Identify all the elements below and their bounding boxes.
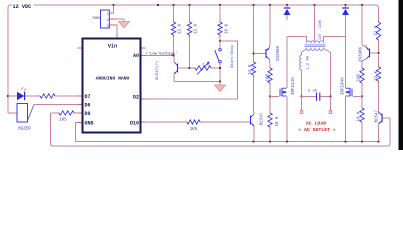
resistor R3 12K pullup at A0 [173, 5, 175, 20]
wire Q1 base to preset [178, 67, 190, 69]
svg-text:12 K: 12 K [249, 64, 253, 75]
wire Q2 emitter to +12V rail [269, 45, 271, 48]
svg-text:D2: D2 [133, 94, 139, 100]
transistor Q2 2N3906 PNP [265, 49, 267, 58]
wire 7805 pin2 to ground [109, 18, 117, 20]
wire D9 to resistor R2 [78, 112, 82, 114]
wire R10 to gate node [361, 85, 363, 97]
node Q4 base junction [377, 52, 379, 54]
svg-text:2 uF: 2 uF [308, 89, 318, 93]
wire LED cathode to resistor [25, 95, 38, 97]
svg-text:12 K: 12 K [375, 25, 379, 36]
wire A0 to sense node [142, 55, 146, 57]
wire outlet terminals [301, 97, 303, 111]
diode D3 flyback right [345, 5, 347, 8]
wire 12K top to base node [253, 54, 255, 61]
svg-text:BUZER: BUZER [18, 128, 31, 132]
wire 7805 pin1 to +12V rail [109, 12, 113, 14]
svg-text:IRFZ44N: IRFZ44N [341, 77, 345, 95]
svg-text:Start/Stop: Start/Stop [230, 44, 235, 68]
black side bar [399, 0, 403, 150]
transformer TR1 primary leads [287, 37, 307, 42]
svg-text:D6: D6 [85, 102, 91, 108]
svg-text:2N3906: 2N3906 [277, 45, 281, 61]
svg-text:12 K: 12 K [195, 23, 199, 34]
svg-text:1 K: 1 K [202, 63, 210, 67]
wire M2 source to ground rail [345, 97, 347, 142]
MOSFET M2 IRFZ44N right [351, 89, 353, 96]
wire Q4 collector down [362, 59, 366, 61]
wire base node to Q2 [254, 53, 267, 55]
wire start/stop net to Q5 base [382, 117, 390, 119]
svg-text:10 K: 10 K [357, 111, 361, 122]
wire Q1 emitter to ground node [173, 74, 175, 82]
svg-text:12 K: 12 K [179, 23, 183, 34]
terminal AC outlet right [329, 111, 332, 114]
transformer TR1 core [305, 44, 326, 46]
resistor R7 100 gate series [268, 68, 272, 83]
transformer secondary leads [302, 49, 307, 56]
wire R12 to Q5 collector [378, 83, 380, 114]
regulator U2 7805 body [101, 10, 110, 28]
wire R7 to gate node [269, 85, 271, 97]
wire resistor R1 to D7 [57, 95, 78, 97]
label 12 VDC [12, 1, 34, 9]
wire Q2 collector to gate resistor [269, 60, 272, 67]
resistor R10 100 gate series right [360, 68, 364, 83]
transistor Q4 2N3906 PNP right [369, 49, 371, 58]
svg-text:2: 2 [107, 18, 109, 22]
svg-text:D9: D9 [85, 111, 91, 117]
diode D2A flyback left [286, 5, 288, 8]
preset RV1 1K [190, 67, 194, 69]
svg-text:1K5: 1K5 [59, 119, 67, 123]
svg-text:12 K: 12 K [375, 70, 379, 81]
wire Q4 emitter to +12V rail [365, 45, 367, 47]
ground symbol below switch [219, 82, 221, 86]
resistor R11 10K gate pulldown right [361, 97, 363, 107]
transistor Q3 BC547 driver [250, 116, 252, 125]
svg-text:BC547(?): BC547(?) [155, 61, 160, 80]
wire sense node to Q1 collector [173, 56, 175, 63]
wire Q5 emitter to ground rail [378, 124, 380, 142]
svg-text:A0: A0 [133, 53, 139, 59]
node A0 sense junction [172, 54, 174, 56]
op-amp U1 ARDUINO NANO body [83, 39, 141, 133]
svg-text:10 K: 10 K [276, 116, 280, 127]
resistor R6 12K base network [251, 62, 255, 75]
node D2 junction [219, 40, 221, 42]
wire D10 to Q3 base [142, 121, 146, 123]
svg-text:BC547: BC547 [261, 112, 265, 125]
buzzer BZ1 body [17, 104, 28, 123]
resistor R13 1K5 base series [187, 120, 200, 124]
switch SW1 Start/Stop [219, 41, 221, 48]
svg-text:7805: 7805 [92, 17, 100, 21]
wire +12V to buzzer [8, 112, 17, 114]
node cap right junction [329, 95, 331, 97]
svg-text:1K5: 1K5 [190, 128, 198, 132]
svg-text:1: 1 [107, 12, 109, 16]
node junctions on switch column [219, 67, 221, 69]
wire switch bottom to ground [219, 63, 221, 81]
wire base node to Q4 [370, 52, 379, 54]
svg-text:100: 100 [357, 73, 361, 81]
resistor R2 1K5 [59, 111, 74, 115]
inductor L1 1.2mH [300, 55, 302, 70]
unconnected pin stubs [78, 47, 82, 49]
MOSFET M1 IRFZ44N [279, 89, 281, 96]
wire gate node to MOSFET M1 [270, 96, 279, 98]
terminal AC outlet left [300, 111, 303, 114]
wire +12V top rail [8, 5, 379, 20]
transformer TR1 center tap to +12V [314, 5, 316, 42]
resistor R5 10K pullup D2 [219, 5, 221, 20]
svg-text:ARDUINO NANO: ARDUINO NANO [96, 75, 130, 81]
node junction +12V to LED [7, 95, 9, 97]
transistor Q1 BC547 low-voltage [177, 64, 179, 73]
svg-text:1.2 mH: 1.2 mH [307, 56, 311, 70]
resistor R8 10K gate pulldown [269, 97, 271, 112]
svg-text:2N3906: 2N3906 [359, 46, 363, 62]
wire GND pin to ground rail [78, 122, 82, 124]
svg-text:« AC OUTLET »: « AC OUTLET » [298, 127, 336, 133]
resistor R1 LED series [40, 94, 55, 98]
svg-text:D7: D7 [85, 94, 91, 100]
svg-text:12 VDC: 12 VDC [13, 4, 32, 10]
LED D1 [17, 92, 24, 100]
node +12V junction dots on top rail [112, 4, 114, 6]
transistor Q5 BC547 right [381, 114, 383, 123]
node Q2 base junction [252, 52, 254, 54]
capacitor C1 2uF [302, 96, 317, 98]
wire Q3 emitter to ground rail [253, 126, 255, 142]
svg-text:IRFZ44N: IRFZ44N [292, 77, 296, 95]
svg-text:3: 3 [107, 24, 109, 28]
wire R2 to bottom start/stop net [51, 112, 58, 114]
wire preset to switch column [213, 67, 220, 69]
transformer TR1 primary winding [307, 41, 324, 44]
node gate junction M2 [361, 95, 363, 97]
ground symbol at 7805 pin2 [119, 22, 130, 29]
wire +12V left drop to LED/buzzer [7, 7, 9, 113]
wire M2 drain to transformer [345, 20, 347, 88]
svg-text:D10: D10 [130, 120, 139, 126]
wire buzzer to D6 diagonal [28, 105, 35, 121]
wire gate node to MOSFET M2 [353, 96, 362, 98]
wire 7805 pin3 output to Vin [109, 24, 117, 26]
resistor R4 12K pullup preset node [189, 5, 191, 20]
svg-text:AC LOAD: AC LOAD [306, 121, 326, 127]
wire M1 source to ground rail [286, 97, 288, 142]
svg-text:BC547: BC547 [375, 109, 379, 122]
node ground rail junction dots [252, 140, 254, 142]
node cap left junction [300, 95, 302, 97]
svg-text:GND: GND [85, 120, 94, 126]
wire L1 to cap node [301, 70, 303, 97]
wire Q3 collector to 12K [253, 112, 255, 114]
resistor R9 12K top right [378, 19, 380, 21]
svg-text:12V - 220V: 12V - 220V [319, 19, 323, 40]
wire M1 drain to transformer [286, 37, 288, 89]
resistor R12 12K base network right [376, 67, 380, 81]
node gate junction M1 [269, 95, 271, 97]
node preset junction [188, 67, 190, 69]
transformer TR1 secondary winding [307, 48, 324, 51]
wire +12V to LED anode [8, 95, 17, 97]
svg-text:100: 100 [267, 73, 271, 81]
svg-text:10 K: 10 K [225, 23, 229, 34]
svg-text:Vin: Vin [108, 44, 117, 50]
wire D2 net [146, 41, 238, 99]
